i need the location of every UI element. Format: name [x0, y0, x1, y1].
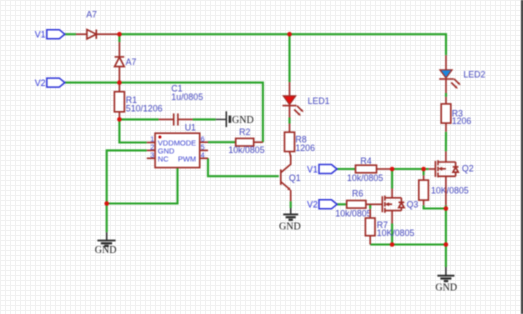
wire R4 node down to Q3 drain [391, 169, 393, 189]
svg-text:1206: 1206 [295, 143, 315, 153]
svg-text:10K/0805: 10K/0805 [431, 185, 469, 195]
ground GND2 under Q1 [279, 208, 301, 232]
wire C1 right to GND flag [193, 118, 216, 120]
svg-text:1u/0805: 1u/0805 [171, 92, 203, 102]
wire R4 node to Q2 gate [392, 168, 429, 170]
wire top V1 line [65, 33, 76, 35]
port V1 second [319, 165, 337, 174]
junction LED1 top node [287, 32, 292, 37]
resistor R1 [114, 83, 124, 120]
wire R1 bottom node to C1 [119, 118, 158, 120]
wire Q3 source down [391, 224, 393, 245]
junction Q3 source bottom node [390, 242, 395, 247]
junction Q2 source R5 node [444, 206, 449, 211]
resistor R8 [285, 124, 295, 158]
LED2 [439, 55, 460, 93]
svg-text:10k/0805: 10k/0805 [228, 145, 264, 155]
resistor R5 vertical 10K [419, 175, 429, 205]
wire LED1 cathode gap [288, 118, 290, 124]
power flag GND at C1 [216, 111, 254, 127]
diode A7 D1 [76, 30, 119, 39]
resistor R7 [365, 209, 375, 245]
svg-text:R6: R6 [352, 189, 363, 199]
svg-text:U1: U1 [185, 123, 196, 133]
wire R5 bottom to Q2 source [424, 205, 446, 208]
svg-text:LED2: LED2 [463, 69, 485, 79]
wire V1 port2 to R4 [337, 168, 356, 170]
svg-text:10k/0805: 10k/0805 [347, 173, 383, 183]
ground GND1 left [95, 232, 117, 256]
svg-text:V2: V2 [35, 78, 46, 88]
mosfet Q2 [429, 151, 459, 205]
wire V2 port2 to R6 [337, 203, 347, 205]
diode A7 D2 [115, 42, 125, 83]
wire R5 branch down [423, 169, 425, 175]
svg-text:GND: GND [279, 221, 301, 232]
LED1 [283, 82, 304, 117]
wire U1 pin4 to Q1 base [208, 158, 279, 176]
wire bottom node to ground [445, 245, 447, 268]
junction R1 bottom node [117, 117, 122, 122]
junction bottom GND node [444, 242, 449, 247]
wire LED2 to R3 gap [445, 93, 447, 97]
port V1 [47, 30, 65, 39]
svg-text:GND: GND [95, 245, 117, 256]
svg-text:510/1206: 510/1206 [126, 104, 163, 114]
wire branch down to LED1 [288, 34, 290, 82]
junction V1 diode node [117, 32, 122, 37]
wire Q1 emitter to ground [290, 201, 292, 208]
svg-text:PWM: PWM [178, 155, 196, 164]
resistor R4 [356, 165, 393, 173]
junction V2 node [117, 80, 122, 85]
junction GND net left [104, 201, 109, 206]
junction R4 Q3 drain node [390, 167, 395, 172]
svg-text:Q2: Q2 [462, 163, 474, 173]
svg-text:R2: R2 [239, 127, 250, 137]
wire R1 bottom node down to U1 pin1 [119, 119, 146, 142]
resistor R2 [236, 138, 263, 146]
capacitor C1 [159, 113, 193, 125]
wire U1 bottom pad to GND net [107, 168, 178, 204]
resistor R6 [347, 201, 383, 209]
svg-text:10K/0805: 10K/0805 [377, 228, 415, 238]
svg-text:A7: A7 [126, 57, 137, 67]
svg-text:Q3: Q3 [407, 199, 419, 209]
wire Q2 source down to bottom node [445, 205, 447, 244]
svg-text:3: 3 [150, 151, 154, 160]
transistor Q1 [281, 155, 291, 201]
svg-text:Q1: Q1 [289, 173, 301, 183]
wire U1 pin2 to GND net [107, 150, 147, 203]
wire R6 tap down to R7 [369, 204, 371, 209]
IC U1 [147, 133, 208, 167]
svg-text:NC: NC [158, 155, 169, 164]
svg-text:LED1: LED1 [308, 96, 330, 106]
svg-text:MODE: MODE [174, 138, 197, 147]
ground GND3 bottom right [435, 267, 457, 293]
svg-text:R4: R4 [360, 156, 371, 166]
mosfet Q3 [382, 189, 404, 224]
svg-text:A7: A7 [86, 10, 97, 20]
resistor R3 [441, 97, 451, 132]
wire R3 to Q2 drain [445, 132, 447, 152]
wire junction to diode D2 [118, 34, 120, 42]
svg-text:V1: V1 [35, 30, 46, 40]
svg-text:4: 4 [201, 151, 205, 160]
svg-text:1206: 1206 [452, 116, 472, 126]
wire V2 line to R2 corner [65, 83, 263, 143]
junction R5 top node [421, 167, 426, 172]
svg-text:V2: V2 [307, 200, 318, 210]
svg-text:V1: V1 [307, 164, 318, 174]
wire top bus from diode junction to LED2 corner [119, 34, 446, 55]
border right edge [521, 0, 523, 314]
port V2 second [319, 200, 337, 209]
wire bottom node line [370, 243, 446, 245]
svg-text:GND: GND [232, 115, 254, 126]
wire U1 pin6 to R2 [208, 141, 236, 143]
wire GND net down to ground [106, 204, 108, 233]
svg-text:10k/0805: 10k/0805 [335, 209, 371, 219]
port V2 [47, 78, 65, 87]
svg-text:GND: GND [435, 282, 457, 293]
